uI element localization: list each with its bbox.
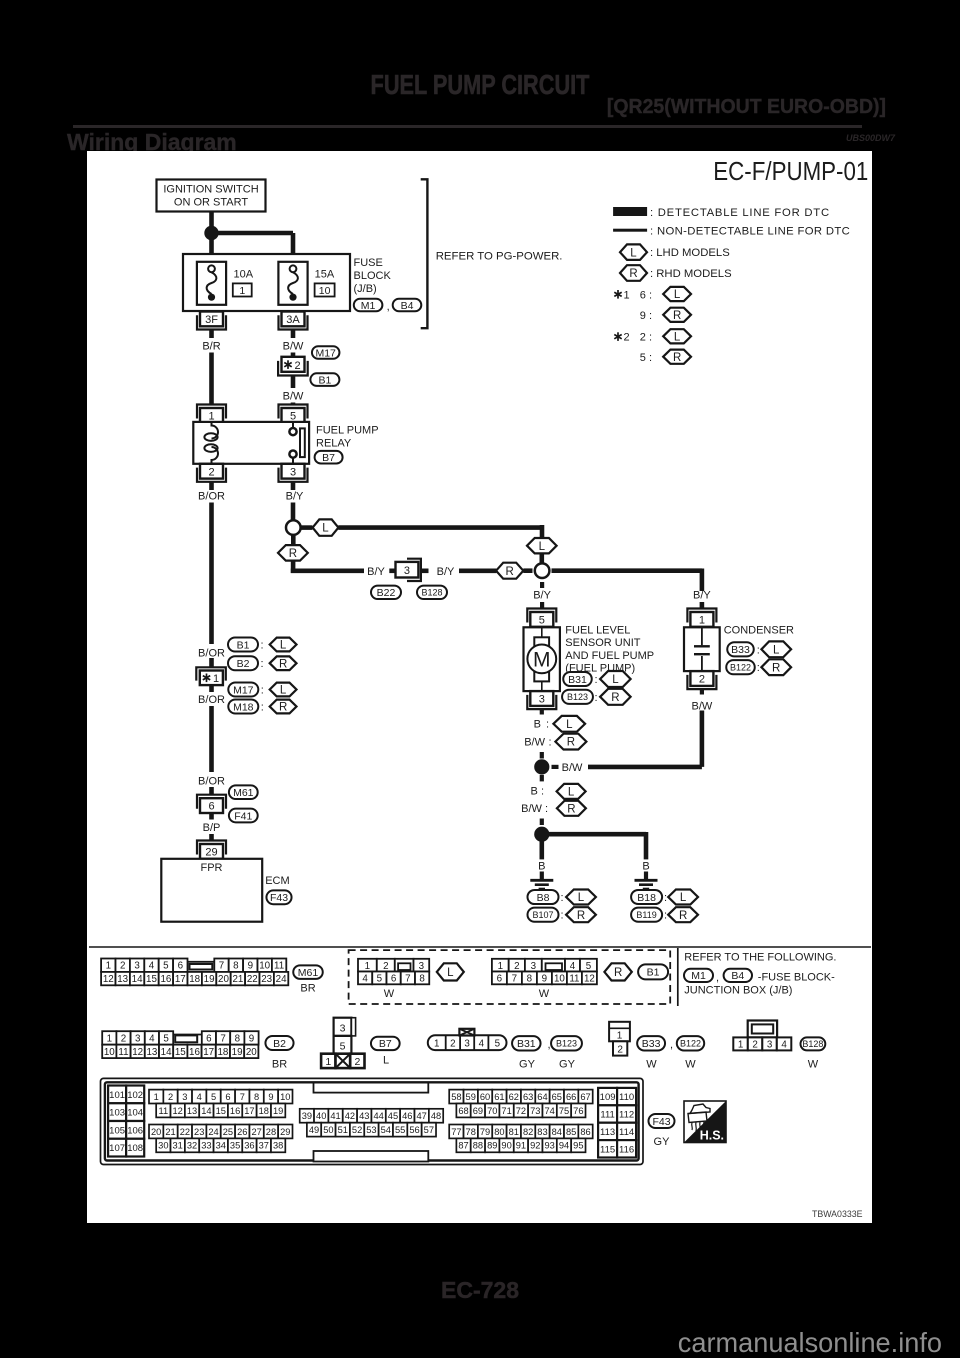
svg-text:B/W: B/W (283, 391, 304, 403)
connector M17 oval with L hexagon mid (228, 683, 296, 697)
dashes junction 2 to connector 5, label B/Y (533, 582, 551, 609)
dash and label B/W right of dot (552, 762, 584, 774)
svg-text:REFER TO PG-POWER.: REFER TO PG-POWER. (436, 250, 563, 262)
svg-text:70: 70 (487, 1106, 497, 1116)
fuse 15A label (315, 269, 335, 297)
svg-text:19: 19 (232, 1047, 243, 1058)
svg-text:R: R (567, 737, 575, 749)
svg-text:1: 1 (617, 1030, 623, 1041)
svg-text:2: 2 (383, 961, 388, 972)
fuse block labels (354, 257, 392, 295)
svg-text:B122: B122 (730, 662, 751, 672)
fuel pump connector 3 (527, 691, 556, 709)
svg-text:81: 81 (509, 1127, 519, 1137)
dash below condenser, label B/W (692, 689, 713, 712)
svg-text:M1: M1 (361, 300, 376, 312)
svg-text:114: 114 (619, 1127, 634, 1138)
svg-text:45: 45 (388, 1111, 398, 1121)
svg-text:GY: GY (654, 1136, 671, 1148)
label B/OR 3 (198, 775, 225, 787)
svg-text:W: W (808, 1059, 819, 1071)
svg-text:4: 4 (197, 1092, 202, 1102)
svg-text:84: 84 (552, 1127, 562, 1137)
svg-text::: : (546, 719, 549, 731)
fuel pump connector 5 (527, 609, 556, 627)
page number EC-728 (0, 1277, 960, 1304)
wire below connector 6, label B/P (203, 813, 221, 841)
connector B22 oval (371, 586, 401, 599)
svg-text:M1: M1 (691, 970, 706, 982)
label B/Y right of inline connector (437, 566, 455, 578)
wire junction to fuse 1 (209, 238, 214, 264)
svg-text:107: 107 (109, 1143, 125, 1154)
connector M18 oval with R hexagon mid (228, 700, 296, 714)
svg-text:4: 4 (149, 1033, 155, 1044)
svg-text:40: 40 (316, 1111, 326, 1121)
svg-text:L: L (674, 331, 681, 343)
dashed junction box group (349, 950, 671, 1004)
svg-text::: : (261, 702, 264, 714)
svg-text:67: 67 (580, 1092, 590, 1102)
svg-text:13: 13 (146, 1047, 157, 1058)
ECM box (161, 859, 262, 922)
svg-text:16: 16 (230, 1106, 240, 1116)
svg-text:1: 1 (107, 1033, 112, 1044)
svg-text:M: M (533, 648, 551, 671)
svg-text:3: 3 (767, 1039, 773, 1050)
svg-text:14: 14 (132, 974, 143, 985)
svg-text:31: 31 (173, 1141, 183, 1151)
wire 3F to relay pin 1, label B/R (202, 330, 220, 406)
svg-text:25: 25 (223, 1127, 233, 1137)
svg-text:R: R (567, 803, 575, 815)
svg-text:3A: 3A (286, 314, 300, 326)
wire into connector 6 (209, 787, 214, 796)
label B/W with R hexagon (524, 734, 586, 750)
svg-text:L: L (568, 787, 575, 799)
svg-text:109: 109 (600, 1092, 616, 1103)
wire L branch to right corner (338, 525, 542, 539)
svg-text:B/W: B/W (562, 762, 583, 774)
svg-text:17: 17 (203, 1047, 214, 1058)
connector B128 pin grid (733, 1021, 791, 1051)
svg-text:B2: B2 (273, 1038, 286, 1050)
svg-text:ON OR START: ON OR START (174, 197, 248, 209)
junction circle LHD (286, 520, 301, 535)
svg-text:3F: 3F (205, 314, 218, 326)
svg-text:58: 58 (451, 1092, 461, 1102)
svg-text:6: 6 (208, 801, 214, 813)
svg-text:6: 6 (391, 973, 397, 984)
svg-text:FUEL LEVEL: FUEL LEVEL (565, 625, 630, 637)
label B/OR 2 (198, 685, 225, 706)
separator bar right of junction group (677, 948, 679, 1006)
svg-text:B18: B18 (637, 892, 656, 904)
svg-text:108: 108 (127, 1143, 143, 1154)
svg-text:12: 12 (103, 974, 114, 985)
connector B128 oval (417, 586, 447, 599)
svg-text:F41: F41 (234, 810, 252, 822)
svg-text:65: 65 (552, 1092, 562, 1102)
connector B31 strip grid (428, 1029, 507, 1050)
svg-text:B31: B31 (517, 1038, 536, 1050)
svg-text:R: R (629, 268, 637, 280)
connector 6 (197, 795, 226, 813)
svg-text::: : (595, 692, 598, 704)
svg-text:47: 47 (417, 1111, 427, 1121)
connector M61 oval (229, 785, 258, 799)
svg-text:W: W (384, 988, 395, 1000)
svg-text::: : (261, 640, 264, 652)
wire hexagon L to junction circle 2 (539, 553, 544, 564)
svg-text:10: 10 (104, 1047, 115, 1058)
svg-text:L: L (280, 685, 287, 697)
svg-text:B1: B1 (647, 967, 660, 979)
svg-text:104: 104 (127, 1108, 143, 1119)
fuse 10A label (233, 269, 254, 297)
svg-text:R: R (772, 662, 780, 674)
svg-text:B2: B2 (237, 658, 250, 670)
svg-text:21: 21 (232, 974, 243, 985)
svg-text:4: 4 (149, 961, 155, 972)
ECM connector outer box (101, 1078, 644, 1164)
wire junction 2 to condenser corner (552, 569, 702, 592)
svg-text:15A: 15A (315, 269, 335, 281)
svg-text:50: 50 (323, 1125, 333, 1135)
svg-text:8: 8 (419, 973, 425, 984)
relay pin 3 (279, 464, 308, 482)
svg-text:1: 1 (498, 961, 503, 972)
svg-text::: : (549, 736, 552, 748)
connector 3A (279, 312, 308, 330)
svg-text:57: 57 (424, 1125, 434, 1135)
wire to hexagon R (459, 568, 496, 573)
svg-text:23: 23 (261, 974, 272, 985)
svg-text:26: 26 (237, 1127, 247, 1137)
dashes below B/W dot (540, 775, 544, 782)
doc code (846, 133, 895, 143)
hexagon R below junction circle (291, 536, 296, 546)
svg-text:: DETECTABLE LINE FOR DTC: : DETECTABLE LINE FOR DTC (650, 207, 830, 219)
svg-text:69: 69 (473, 1106, 483, 1116)
svg-text:5: 5 (290, 411, 296, 423)
svg-text:15: 15 (146, 974, 157, 985)
svg-text:75: 75 (559, 1106, 569, 1116)
svg-text:90: 90 (501, 1141, 511, 1151)
svg-text:6: 6 (178, 961, 184, 972)
capacitor symbol (694, 627, 710, 671)
ECM left pin grid 101-108 (108, 1086, 144, 1157)
svg-text:72: 72 (516, 1106, 526, 1116)
svg-text:B123: B123 (556, 1039, 577, 1049)
svg-text:GY: GY (559, 1059, 576, 1071)
svg-text:ECM: ECM (265, 875, 289, 887)
connector B33 B122 oval labels (637, 1036, 704, 1070)
svg-text:11: 11 (159, 1106, 169, 1116)
svg-text:B/P: B/P (203, 822, 221, 834)
svg-text:17: 17 (244, 1106, 254, 1116)
svg-text:76: 76 (573, 1106, 583, 1116)
svg-text:1: 1 (699, 615, 705, 627)
svg-text:R: R (289, 548, 297, 560)
separator line (89, 946, 871, 948)
svg-text:95: 95 (573, 1141, 583, 1151)
refer to pg-power bracket (421, 179, 428, 328)
svg-text:EC-F/PUMP-01: EC-F/PUMP-01 (713, 156, 868, 186)
label B left ground (538, 861, 545, 873)
svg-text:68: 68 (458, 1106, 468, 1116)
svg-text::: : (664, 910, 667, 922)
svg-text:B7: B7 (379, 1038, 392, 1050)
junction dot A (204, 226, 218, 240)
dash below fuel pump connector 3 (540, 709, 544, 714)
wire relay pin 3 down, label B/Y (286, 482, 304, 521)
svg-text:52: 52 (352, 1125, 362, 1135)
svg-text:3: 3 (340, 1023, 346, 1035)
svg-text:87: 87 (458, 1141, 468, 1151)
svg-text:27: 27 (251, 1127, 261, 1137)
svg-text:16: 16 (189, 1047, 200, 1058)
fuel pump relay box (193, 422, 309, 464)
svg-text:6: 6 (497, 973, 503, 984)
svg-text:112: 112 (619, 1110, 634, 1121)
wire junction to fuse 2 (216, 233, 293, 264)
svg-text:24: 24 (276, 974, 287, 985)
svg-text:8: 8 (254, 1092, 259, 1102)
svg-text:B128: B128 (802, 1039, 823, 1049)
svg-text:2: 2 (121, 1033, 126, 1044)
svg-text:11: 11 (118, 1047, 128, 1058)
svg-text:13: 13 (117, 974, 128, 985)
ground junction dot (534, 827, 549, 842)
connector F43 oval label (649, 1114, 675, 1148)
condenser connector 2 (687, 671, 716, 689)
svg-text:B33: B33 (731, 644, 750, 656)
svg-text:1: 1 (365, 961, 370, 972)
svg-text:2: 2 (699, 674, 705, 686)
diagram code TBWA0333E (812, 1209, 863, 1219)
label ECM (265, 875, 289, 887)
fuel level sensor labels (565, 625, 654, 675)
svg-text:2: 2 (354, 1056, 360, 1068)
svg-text:M61: M61 (298, 967, 319, 979)
svg-text:BR: BR (300, 983, 315, 995)
white diagram page (87, 151, 872, 1223)
svg-text:B119: B119 (636, 910, 656, 920)
svg-text:2: 2 (752, 1039, 757, 1050)
connector B2 oval label (265, 1036, 293, 1071)
svg-text:42: 42 (345, 1111, 355, 1121)
svg-text:R: R (679, 910, 687, 922)
svg-text:2: 2 (208, 466, 214, 478)
svg-text:86: 86 (580, 1127, 590, 1137)
svg-text:49: 49 (309, 1125, 319, 1135)
label B/Y left of inline connector (367, 566, 385, 578)
svg-text:113: 113 (600, 1127, 615, 1138)
svg-text:22: 22 (247, 974, 258, 985)
svg-text:M61: M61 (233, 787, 254, 799)
svg-text:24: 24 (208, 1127, 218, 1137)
svg-text:6: 6 (225, 1092, 230, 1102)
connector B8 oval with L hexagon (528, 890, 596, 905)
svg-text:43: 43 (359, 1111, 369, 1121)
svg-text:41: 41 (330, 1111, 340, 1121)
svg-text:20: 20 (246, 1047, 257, 1058)
svg-text:1: 1 (738, 1039, 743, 1050)
svg-text:11: 11 (274, 961, 284, 972)
label B right ground (642, 861, 649, 873)
svg-text:6 :: 6 : (640, 289, 652, 301)
svg-text:1: 1 (325, 1056, 331, 1068)
svg-text:16: 16 (160, 974, 171, 985)
svg-text:FPR: FPR (201, 862, 223, 874)
dashes to condenser connector 1, label B/Y (693, 590, 711, 609)
connector *2 (278, 357, 308, 376)
connector B2 oval with R hexagon mid (228, 656, 297, 670)
connector M1 oval (354, 299, 383, 312)
svg-text:4: 4 (570, 961, 576, 972)
fuel level sensor unit box (524, 627, 560, 691)
svg-text:102: 102 (127, 1090, 143, 1101)
svg-text:2: 2 (295, 360, 301, 372)
label B/OR with B1/B2 ovals (198, 647, 225, 659)
svg-text:BR: BR (272, 1059, 287, 1071)
svg-text:11: 11 (569, 973, 579, 984)
svg-text:63: 63 (523, 1092, 533, 1102)
svg-text:83: 83 (537, 1127, 547, 1137)
svg-text:44: 44 (373, 1111, 383, 1121)
connector B7 oval (315, 451, 343, 464)
svg-text:B/Y: B/Y (693, 590, 711, 602)
svg-text:88: 88 (473, 1141, 483, 1151)
svg-text:3: 3 (404, 565, 410, 577)
svg-text:46: 46 (402, 1111, 412, 1121)
svg-text:73: 73 (530, 1106, 540, 1116)
svg-text::: : (561, 910, 564, 922)
svg-text:5: 5 (211, 1092, 216, 1102)
svg-text:8: 8 (527, 973, 533, 984)
svg-text:2: 2 (120, 961, 125, 972)
svg-text:19: 19 (204, 974, 215, 985)
svg-text:: NON-DETECTABLE LINE FOR DTC: : NON-DETECTABLE LINE FOR DTC (650, 226, 850, 238)
svg-text:14: 14 (201, 1106, 211, 1116)
svg-text:2: 2 (514, 961, 519, 972)
svg-text:115: 115 (600, 1144, 615, 1155)
svg-text:B33: B33 (642, 1038, 661, 1050)
svg-text:3: 3 (531, 961, 537, 972)
svg-text:B4: B4 (731, 970, 744, 982)
svg-text:74: 74 (544, 1106, 554, 1116)
svg-text:2: 2 (617, 1045, 623, 1056)
ECM pin grid 39-57 (300, 1109, 444, 1137)
svg-text:54: 54 (381, 1125, 391, 1135)
page header: FUEL PUMP CIRCUIT (101, 69, 859, 101)
svg-text:7: 7 (220, 1033, 225, 1044)
junction box text (684, 985, 792, 997)
svg-text:3: 3 (290, 466, 296, 478)
svg-text:4: 4 (362, 973, 368, 984)
svg-text::: : (561, 892, 564, 904)
svg-text:R: R (614, 967, 622, 979)
hexagon R in junction group (604, 963, 631, 980)
svg-text:89: 89 (487, 1141, 497, 1151)
connector B1 oval with L hexagon mid (228, 638, 297, 652)
hexagon L branch (313, 519, 339, 535)
svg-text:FUEL PUMP: FUEL PUMP (316, 425, 379, 437)
svg-text:20: 20 (151, 1127, 161, 1137)
svg-text:21: 21 (165, 1127, 175, 1137)
svg-text:10: 10 (259, 961, 270, 972)
stub to L hexagon (302, 525, 313, 530)
condenser box (684, 627, 720, 671)
M1 B4 fuse block line (684, 969, 835, 984)
svg-text:L: L (773, 644, 780, 656)
H.S. harness symbol (684, 1101, 726, 1143)
svg-text:F43: F43 (652, 1116, 670, 1128)
dash above junction dot B/W (540, 752, 544, 759)
wire condenser to B/W junction (700, 711, 705, 767)
svg-text:12: 12 (173, 1106, 183, 1116)
svg-text:H.S.: H.S. (700, 1129, 724, 1143)
svg-text:33: 33 (201, 1141, 211, 1151)
svg-text:20: 20 (218, 974, 229, 985)
svg-text:18: 18 (217, 1047, 228, 1058)
svg-text:L: L (612, 674, 619, 686)
svg-text:7: 7 (405, 973, 410, 984)
svg-text:7: 7 (219, 961, 224, 972)
svg-text:1: 1 (154, 1092, 159, 1102)
svg-text::: : (261, 685, 264, 697)
svg-text::: : (261, 658, 264, 670)
svg-text:B/W: B/W (524, 736, 545, 748)
dash above ground junction dot (540, 819, 544, 826)
stub out of inline connector 3 (421, 568, 429, 573)
relay pin 2 (197, 464, 226, 482)
ECM bottom slot (314, 1151, 429, 1162)
svg-text:53: 53 (366, 1125, 376, 1135)
watermark carmanualsonline.info (28, 1327, 942, 1358)
svg-text:18: 18 (259, 1106, 269, 1116)
svg-text:L: L (680, 892, 687, 904)
svg-text::: : (757, 662, 760, 674)
stub into inline connector 3 (389, 568, 395, 573)
svg-text:R: R (673, 310, 681, 322)
junction circle 2 (535, 563, 550, 578)
page header: QR25 subtitle (44, 95, 886, 119)
svg-text:4: 4 (479, 1039, 485, 1050)
svg-text:BLOCK: BLOCK (354, 270, 392, 282)
svg-text:5: 5 (163, 961, 169, 972)
relay pin 5 (279, 405, 308, 423)
svg-text:L: L (322, 523, 329, 535)
svg-text:B/Y: B/Y (286, 491, 304, 503)
svg-text:30: 30 (158, 1141, 168, 1151)
svg-text:5: 5 (539, 615, 545, 627)
connector B7 pin grid (321, 1018, 364, 1068)
svg-text:4: 4 (781, 1039, 787, 1050)
svg-text:29: 29 (280, 1127, 290, 1137)
svg-text:85: 85 (566, 1127, 576, 1137)
connector B123 oval with R hexagon (562, 689, 631, 705)
svg-text:B/OR: B/OR (198, 775, 225, 787)
wire to right ground branch (548, 832, 646, 859)
svg-text:RELAY: RELAY (316, 438, 352, 450)
wire to left ground (539, 841, 544, 859)
svg-text:B/OR: B/OR (198, 647, 225, 659)
header rule (73, 125, 862, 128)
svg-text:L: L (566, 719, 573, 731)
svg-text:79: 79 (480, 1127, 490, 1137)
